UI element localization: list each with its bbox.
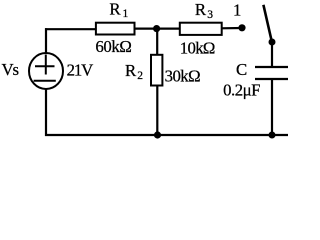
svg-text:0.2μF: 0.2μF — [223, 80, 260, 99]
svg-text:30kΩ: 30kΩ — [165, 67, 201, 86]
svg-text:R: R — [109, 0, 121, 19]
svg-text:3: 3 — [207, 9, 213, 21]
svg-text:1: 1 — [123, 8, 129, 20]
svg-text:Vs: Vs — [2, 60, 20, 79]
svg-text:C: C — [236, 60, 247, 79]
svg-text:1: 1 — [233, 1, 241, 20]
svg-text:2: 2 — [137, 70, 143, 82]
svg-text:60kΩ: 60kΩ — [95, 37, 131, 56]
svg-text:R: R — [195, 0, 207, 19]
svg-text:R: R — [125, 61, 137, 80]
svg-text:10kΩ: 10kΩ — [180, 39, 216, 58]
svg-text:21V: 21V — [67, 60, 94, 79]
